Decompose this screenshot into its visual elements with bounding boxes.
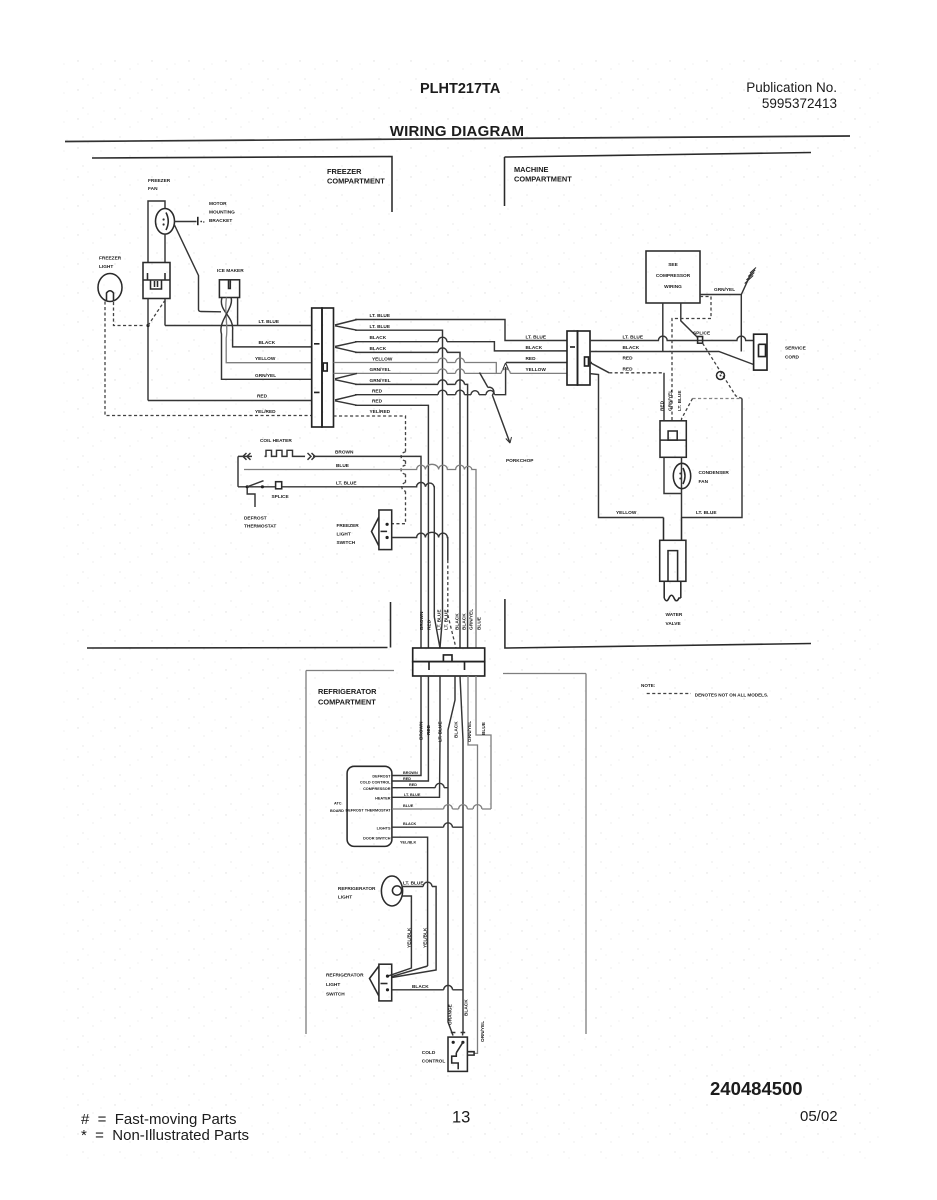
coil heater element [238,450,305,456]
defrost thermostat lever [247,481,263,487]
svg-text:GRN/YEL: GRN/YEL [667,390,673,411]
rotated label YEL/BLK left [407,927,413,948]
svg-text:HEATER: HEATER [375,797,391,801]
svg-text:LIGHT: LIGHT [338,895,352,901]
svg-text:LT. BLUE: LT. BLUE [370,313,391,319]
svg-text:LT. BLUE: LT. BLUE [336,480,357,486]
rotated bundle labels below connector [419,721,425,740]
rotated label RED [659,400,665,411]
svg-text:GRN/YEL: GRN/YEL [469,609,475,630]
svg-text:REFRIGERATOR: REFRIGERATOR [326,973,364,979]
wire bundle below connector lt.blue [392,676,440,797]
svg-text:ICE MAKER: ICE MAKER [217,268,244,274]
svg-text:BRACKET: BRACKET [209,218,232,224]
svg-text:RED: RED [427,619,433,630]
pennant terminal grn/yel pair [335,373,357,384]
svg-text:VALVE: VALVE [666,621,681,627]
svg-text:LT. BLUE: LT. BLUE [370,324,391,330]
refrigerator compartment border left [306,671,394,1035]
ATC board [347,766,392,846]
svg-text:FREEZER: FREEZER [148,178,171,184]
wire fan switch lever dashed [148,301,165,326]
wire relay to condenser fan loop [664,457,682,517]
wire lt.blue from bulb over yel/blk corner down [392,887,436,978]
svg-text:BROWN: BROWN [335,449,354,455]
svg-text:DEFROST THERMOSTAT: DEFROST THERMOSTAT [346,808,392,812]
svg-text:BLACK: BLACK [463,999,469,1016]
splice on lt.blue [698,337,703,344]
svg-text:DENOTES NOT ON ALL MODELS.: DENOTES NOT ON ALL MODELS. [695,693,769,698]
svg-text:5995372413: 5995372413 [762,96,837,111]
wire lt.blue heater row [238,486,276,488]
svg-text:LT. BLUE: LT. BLUE [526,334,547,340]
svg-text:COMPARTMENT: COMPARTMENT [514,175,572,184]
svg-text:PORKCHOP: PORKCHOP [506,458,533,464]
svg-text:BLACK: BLACK [462,613,468,630]
wire blue row with hops [244,464,476,648]
svg-text:GRN/YEL: GRN/YEL [255,373,276,379]
machine compartment border top [505,153,812,207]
svg-text:BLACK: BLACK [623,345,640,351]
wire bundle below connector red [392,676,428,781]
wire row BLACK right 2 to V2 [355,352,460,648]
svg-text:BLUE: BLUE [477,617,483,630]
svg-text:COLD: COLD [422,1050,436,1056]
wire compressor box left lead down to black row [662,303,664,352]
wire fan diagonal lead [174,224,221,312]
wire grn/yel from compressor box to ground [700,274,751,295]
wire ice maker lead A twist to black row [221,298,311,347]
wire dashed black drop to connector [448,560,456,648]
wire dashed grn/yel from compressor box to relay [672,297,711,421]
wire fan upper bracket [148,201,165,263]
rotated label LT. BLUE [677,391,683,412]
svg-text:YELLOW: YELLOW [616,510,637,516]
svg-text:DOOR SWITCH: DOOR SWITCH [363,836,391,840]
wire red row freezer left [148,400,312,402]
wire machine black row right diagonal to service cord [590,352,754,365]
svg-text:YELLOW: YELLOW [372,356,393,362]
wire row GRN/YEL right 1 continuous to machine connector [334,372,568,374]
defrost thermostat contact dots [246,485,249,488]
wire dashed from splice down to loop corner [703,343,742,398]
wire fan switch left lead down to red row [147,299,149,401]
svg-text:SWITCH: SWITCH [337,540,356,546]
svg-text:BROWN: BROWN [419,721,425,740]
svg-text:YEL/BLK: YEL/BLK [407,927,413,948]
svg-text:BLACK: BLACK [412,984,429,990]
wire lt.blue heater row right with hops corner down [282,482,435,617]
wire freezer light dashed lead to lt.blue row [114,302,146,326]
pennant terminal black pair [335,342,357,353]
wire grn/yel drop to black row [740,295,742,352]
splice block on lt.blue heater row [276,482,282,489]
svg-text:WIRING DIAGRAM: WIRING DIAGRAM [390,123,524,140]
see compressor wiring box [646,251,700,303]
svg-text:COMPRESSOR: COMPRESSOR [363,787,391,791]
svg-text:WATER: WATER [666,612,683,618]
rotated label YEL/BLK right [422,927,428,948]
rotated label BLACK [463,999,469,1016]
chassis ground symbol [745,268,756,284]
cold control terminal ticks [451,1032,465,1034]
svg-text:COMPARTMENT: COMPARTMENT [318,698,376,707]
wire row YEL/RED dashed to freezer light switch [334,416,406,524]
coil heater chevrons right [308,453,316,460]
svg-text:LIGHT: LIGHT [337,532,351,538]
wire lt.blue row freezer left [165,325,312,327]
wire machine red row right diagonal to dashed red [590,362,592,364]
svg-text:COLD CONTROL: COLD CONTROL [360,780,391,784]
svg-text:CONDENSER: CONDENSER [699,470,730,476]
rotated label GRN/YEL [667,390,673,411]
svg-text:SEE: SEE [668,262,678,268]
wire ice maker lead B twist to yellow row [226,298,312,363]
wire row GRN/YEL right 2 to V3 [355,384,468,648]
svg-text:DEFROST: DEFROST [244,516,267,522]
svg-text:BLACK: BLACK [370,346,387,352]
svg-text:Publication No.: Publication No. [746,80,837,95]
svg-text:FREEZER: FREEZER [337,523,360,529]
wire dashed RED row to compressor relay [609,372,664,374]
wire row LT. BLUE right 2 to V1 [355,330,443,617]
wire freezer light switch bottom row to bundle [392,532,448,560]
svg-text:BLACK: BLACK [259,340,276,346]
rotated bundle labels above connector [419,611,425,630]
title underline rule [65,136,850,142]
condenser fan motor [673,463,690,488]
svg-text:WIRING: WIRING [664,284,682,290]
svg-text:LT. BLUE: LT. BLUE [259,319,280,325]
svg-text:SPLICE: SPLICE [272,494,289,500]
svg-text:RED: RED [403,777,411,781]
svg-text:LT. BLUE: LT. BLUE [444,610,450,631]
coil heater chevrons left [243,453,251,460]
svg-text:RED: RED [623,356,634,362]
wire ice maker lead C twist to grn/yel row [221,298,312,380]
refrigerator light switch box [379,964,392,1001]
water valve [664,518,682,541]
svg-text:# = Fast-moving Parts: # = Fast-moving Parts [81,1111,236,1128]
svg-text:LT. BLUE: LT. BLUE [404,793,421,797]
svg-text:RED: RED [623,366,634,372]
svg-text:LT. BLUE: LT. BLUE [677,391,683,412]
svg-text:ORN/YEL: ORN/YEL [480,1021,486,1042]
svg-text:SWITCH: SWITCH [326,992,345,998]
svg-text:ATC: ATC [334,801,342,805]
svg-text:240484500: 240484500 [710,1078,803,1099]
svg-text:YEL/BLK: YEL/BLK [422,927,428,948]
wire coil heater left vertical [237,456,239,486]
wire row LT. BLUE right 1 [355,320,567,341]
svg-text:LIGHTS: LIGHTS [377,826,391,830]
svg-text:GRN/YEL: GRN/YEL [714,287,735,293]
svg-text:YEL/RED: YEL/RED [255,409,276,415]
svg-text:FREEZER: FREEZER [327,167,362,176]
svg-text:BOARD: BOARD [330,809,344,813]
svg-text:DEFROST: DEFROST [372,774,391,778]
cold control right stub terminal [467,1052,474,1055]
svg-text:BROWN: BROWN [403,771,418,775]
svg-text:FAN: FAN [148,186,158,192]
wire brown row to corner down [313,456,421,648]
wire freezer light dashed lead to yel/red row [105,302,312,416]
svg-text:CORD: CORD [785,355,800,361]
wire yel/blk door switch drop diagonal [392,966,428,977]
svg-text:NOTE:: NOTE: [641,683,656,688]
svg-text:COMPARTMENT: COMPARTMENT [327,177,385,186]
svg-text:FAN: FAN [699,479,709,485]
service cord plug [754,334,767,370]
compressor relay box [660,421,686,458]
svg-text:05/02: 05/02 [800,1108,838,1125]
svg-text:FREEZER: FREEZER [99,256,122,262]
machine compartment connector [567,331,578,385]
freezer light bulb [98,274,122,302]
wire machine RED row from arrow [506,362,567,364]
wire row RED right 2 corner down [355,405,428,648]
svg-text:YELLOW: YELLOW [255,356,276,362]
wire fan switch right lead to lt.blue row [164,299,166,326]
wire bundle below connector grn/yel to orn/yel [468,676,478,1053]
circled symbol on dashed diagonal [717,372,725,380]
svg-text:BLACK: BLACK [370,335,387,341]
svg-text:LT. BLUE: LT. BLUE [438,722,444,743]
wire bundle below connector brown [392,676,421,776]
svg-text:SERVICE: SERVICE [785,346,806,352]
bottom terminal board connector [413,648,485,662]
svg-text:LT. BLUE: LT. BLUE [696,510,717,516]
svg-text:LT. BLUE: LT. BLUE [403,881,424,887]
wire red into relay [663,373,665,421]
svg-text:13: 13 [452,1109,470,1127]
node junction dot fan switch [146,324,149,327]
svg-text:RED: RED [526,356,537,362]
svg-text:RED: RED [372,389,383,395]
ice maker connector [219,280,239,298]
svg-text:BLUE: BLUE [481,722,487,735]
wire row RED right 1 with arrow up to machine red row [355,367,506,395]
svg-text:GRN/YEL: GRN/YEL [370,367,391,373]
pennant terminal red pair [335,395,357,406]
svg-text:BLACK: BLACK [403,822,417,826]
svg-text:RED: RED [659,400,665,411]
wire machine yellow row down left side of loop [590,374,664,518]
svg-text:YEL/BLK: YEL/BLK [400,841,417,845]
svg-text:SPLICE: SPLICE [693,331,710,337]
wire yel/blk from bulb bottom [388,896,412,976]
wire lt.blue dotted top edge [693,398,743,400]
svg-text:REFRIGERATOR: REFRIGERATOR [338,886,376,892]
svg-text:LT. BLUE: LT. BLUE [437,610,443,631]
svg-text:REFRIGERATOR: REFRIGERATOR [318,687,377,696]
svg-text:YELLOW: YELLOW [526,367,547,373]
svg-text:CONTROL: CONTROL [422,1059,446,1065]
svg-text:BLUE: BLUE [336,463,349,469]
rotated label ORN/YEL [480,1021,486,1042]
svg-text:RED: RED [409,783,417,787]
svg-text:LT. BLUE: LT. BLUE [623,334,644,340]
defrost thermostat body [247,488,255,507]
cold control box [448,1037,467,1071]
svg-text:BROWN: BROWN [419,611,425,630]
wire row YELLOW right with step down [334,363,497,374]
rotated label ORANGE [448,1004,454,1025]
wire fan lower lead [164,234,166,263]
machine compartment border bottom [505,599,811,648]
wire ice maker lead D to lt.blue row [237,298,239,326]
svg-text:MOTOR: MOTOR [209,201,227,207]
wire bundle below connector orange [448,676,455,1036]
refrigerator compartment border right [503,674,586,1035]
motor mounting bracket pointer [175,221,197,223]
svg-text:THERMOSTAT: THERMOSTAT [244,524,276,530]
svg-text:BLACK: BLACK [455,613,461,630]
freezer fan motor M1 [156,209,175,235]
svg-text:* = Non-Illustrated Parts: * = Non-Illustrated Parts [81,1127,249,1144]
refrigerator light bulb [381,876,402,906]
svg-text:RED: RED [257,394,268,400]
svg-text:RED: RED [426,724,432,735]
svg-text:BLACK: BLACK [526,345,543,351]
freezer terminal board connector [312,308,322,427]
freezer compartment border bottom [87,602,391,648]
svg-text:RED: RED [372,399,383,405]
wire compressor box right lead to splice [681,303,698,338]
svg-text:MOUNTING: MOUNTING [209,210,235,216]
svg-text:COIL HEATER: COIL HEATER [260,438,292,444]
wire machine lt.blue row right to service cord [590,336,754,340]
svg-text:BLACK: BLACK [454,721,460,738]
freezer compartment border top [92,157,392,213]
svg-text:LIGHT: LIGHT [99,264,113,270]
wire row BLACK right 1 [355,342,567,351]
wire lt.blue pair funnel into connector [434,617,442,648]
svg-text:LIGHT: LIGHT [326,982,340,988]
wire bundle below connector black [460,676,463,1036]
wire black row from switch to black vertical [392,989,463,991]
svg-text:YEL/RED: YEL/RED [370,409,391,415]
svg-text:PLHT217TA: PLHT217TA [420,81,501,97]
svg-text:COMPRESSOR: COMPRESSOR [656,273,691,279]
pennant terminal lt.blue pair [335,320,357,331]
svg-text:GRN/YEL: GRN/YEL [467,721,473,742]
freezer fan switch box [143,263,170,299]
wire lt.blue loop right side to water valve [682,399,743,518]
porkchop leader line [480,373,511,444]
svg-text:MACHINE: MACHINE [514,165,549,174]
wire dashed lt.blue diagonal into relay [682,399,693,421]
svg-text:GRN/YEL: GRN/YEL [370,378,391,384]
svg-text:BLUE: BLUE [403,804,414,808]
freezer light switch box [379,510,392,550]
svg-text:ORANGE: ORANGE [448,1004,454,1025]
wire bundle below connector blue steps right [476,676,491,809]
